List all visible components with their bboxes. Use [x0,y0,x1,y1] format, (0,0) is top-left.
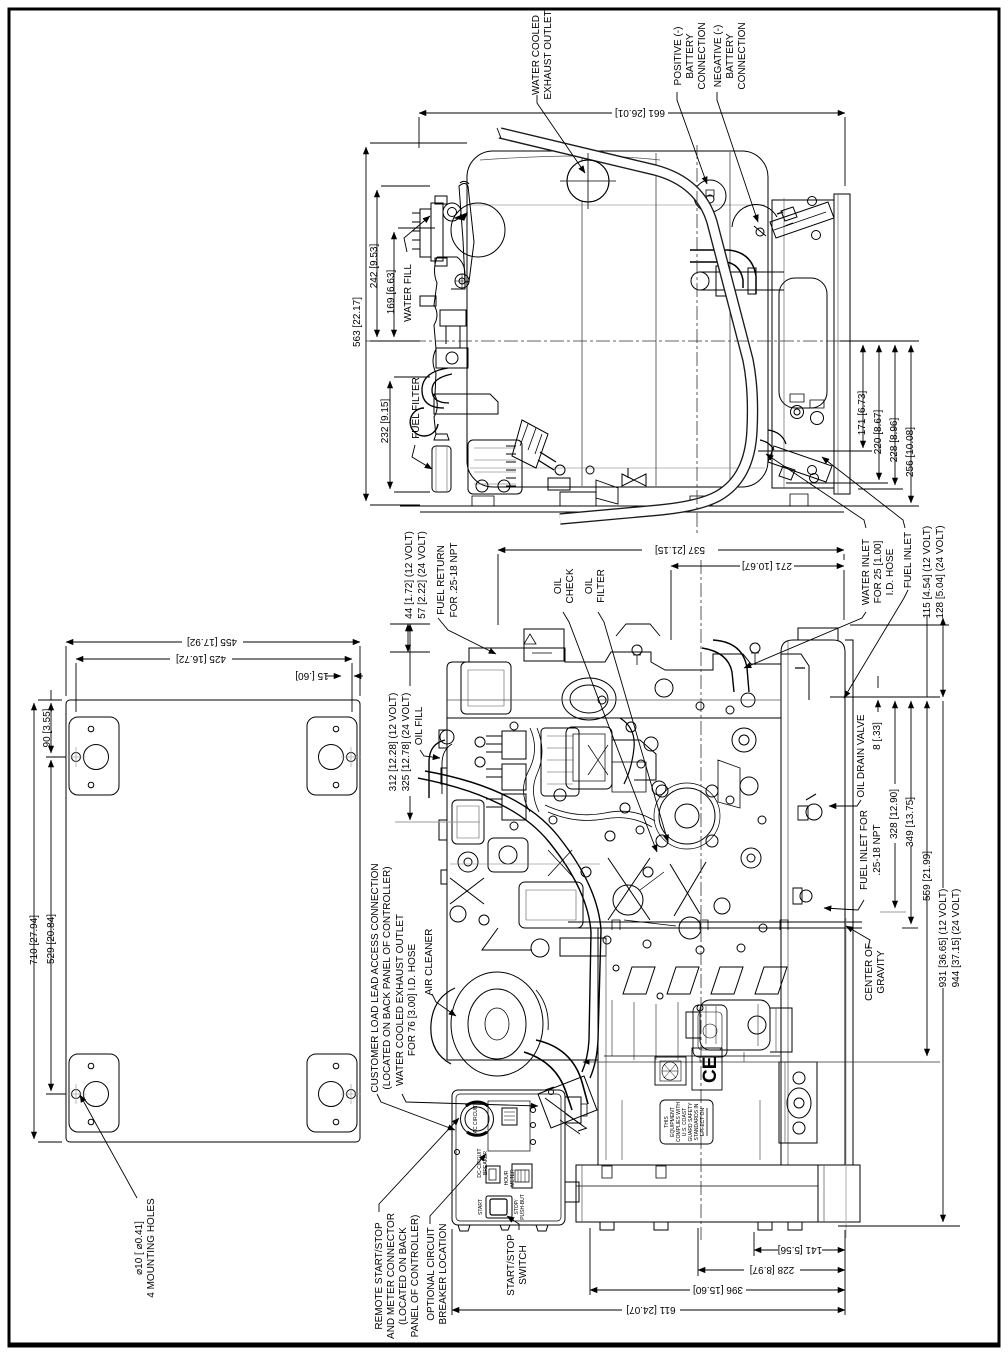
oil filter inner [675,804,699,828]
hour meter [512,1164,532,1188]
drain petcock [622,474,646,486]
leader fuel return [438,618,496,654]
connector decal [502,1108,517,1125]
tank seam lines [470,205,765,468]
dim 312 line [409,656,411,820]
thermostat circle [562,678,616,720]
svg-text:POSITIVE (-): POSITIVE (-) [673,27,684,86]
leader 4 mounting holes [80,1095,137,1198]
feet [600,1222,802,1230]
dim 15 line [332,675,341,677]
svg-text:141 [5.56]: 141 [5.56] [778,1244,823,1255]
svg-text:349 [13.75]: 349 [13.75] [905,797,916,847]
engine top profile [447,648,809,700]
svg-text:455 [17.92]: 455 [17.92] [187,636,237,647]
leader water inlet to top view [766,454,866,528]
engine bed line bottom [400,506,858,512]
top small bolts [632,645,642,655]
dim 328 line [894,701,896,908]
svg-text:CUSTOMER LOAD LEAD ACCESS CONN: CUSTOMER LOAD LEAD ACCESS CONNECTION [370,863,381,1092]
svg-text:METER: METER [510,1169,516,1187]
thermostat overflow hose [422,368,448,408]
svg-text:AIR CLEANER: AIR CLEANER [424,929,435,996]
svg-text:AND METER CONNECTOR: AND METER CONNECTOR [386,1213,397,1339]
leader center of gravity [846,926,870,948]
bottom ext lines [452,1228,845,1315]
leader water fill [404,216,430,252]
tank band lines [582,152,730,486]
svg-text:OIL: OIL [553,578,564,595]
svg-text:FOR .25-18 NPT: FOR .25-18 NPT [449,542,460,617]
mid pipes cluster [440,310,466,326]
mounting hole crosshair bottom-right [341,1084,361,1104]
leader oil filter [598,612,668,842]
bottom ear plate [768,446,832,482]
CE mark sticker [692,1048,722,1090]
right ext line mid [830,696,940,698]
extra engine circles [554,789,566,801]
dim 611 [452,1309,845,1311]
svg-text:537 [21.15]: 537 [21.15] [655,544,705,555]
injection pump block [468,440,522,494]
svg-text:171 [6.73]: 171 [6.73] [857,391,868,436]
dim 455 line [66,641,360,643]
left face bumps [439,730,447,884]
leader water inlet [744,612,866,668]
control panel box [452,1090,565,1225]
dim 425 ext lines [76,663,352,712]
svg-text:FUEL INLET FOR: FUEL INLET FOR [859,810,870,890]
dim 271 ext [671,570,844,640]
drip tray [576,1165,818,1222]
leader customer load [377,1094,455,1130]
dim 115/128 line [942,618,944,697]
dim 271 line [671,565,844,567]
dim 141 [754,1249,845,1251]
bottom border thick [9,1343,999,1348]
svg-text:242 [9.53]: 242 [9.53] [369,244,380,289]
dim 710 line [33,703,35,1139]
svg-text:CENTER OF: CENTER OF [864,943,875,1001]
bed bolts [612,920,788,930]
large hole top-right [319,745,344,770]
svg-text:228 [8.97]: 228 [8.97] [750,1264,795,1275]
small holes top-left bracket [88,726,94,732]
battery positive post [694,180,726,212]
dim 661 ext [419,117,845,186]
valve cover left [461,662,511,714]
svg-text:.25-18 NPT: .25-18 NPT [872,824,883,875]
svg-text:328 [12.90]: 328 [12.90] [889,789,900,839]
vent slots [623,967,655,994]
bed feet bolts top view [472,494,808,506]
svg-text:WATER INLET: WATER INLET [861,539,872,605]
panel tiny texts [473,1105,526,1220]
oil drain valve [806,804,822,820]
dim 563 ext [370,143,467,505]
crank centerline horizontal [583,1061,940,1063]
front hose big curve [425,771,601,1078]
dim 44 ext [390,624,430,652]
breather cap [655,679,673,697]
large hole bottom-right [319,1082,344,1107]
bracket top-left [69,717,119,795]
small holes top-right bracket [333,726,339,732]
large hole bottom-left [84,1082,109,1107]
svg-text:OPTIONAL CIRCUIT: OPTIONAL CIRCUIT [426,1227,437,1321]
leader air cleaner [432,994,456,1016]
piping mid [612,740,656,780]
svg-text:BREAKER LOCATION: BREAKER LOCATION [438,1224,449,1325]
svg-text:PANEL OF CONTROLLER): PANEL OF CONTROLLER) [410,1215,421,1338]
hose left end detail [497,128,501,138]
ribbed fins [506,446,516,486]
engine block edges [446,700,448,1060]
dim 559 line [926,701,928,1056]
svg-text:FUEL FILTER: FUEL FILTER [411,377,422,439]
svg-text:NEGATIVE (-): NEGATIVE (-) [713,25,724,88]
water pump pipe [700,272,784,290]
svg-text:944 [37.15] (24 VOLT): 944 [37.15] (24 VOLT) [951,889,962,988]
oil filter outer ring [659,788,715,844]
svg-text:EXHAUST OUTLET: EXHAUST OUTLET [543,10,554,99]
svg-text:90 [3.55]: 90 [3.55] [42,708,53,747]
frame diagonal webs [608,858,706,920]
leader positive battery [677,92,707,184]
lower skirt lines [622,1100,760,1160]
intake box [566,727,612,789]
dim 312 ext [395,821,480,823]
svg-text:GRAVITY: GRAVITY [876,950,887,993]
svg-text:CE: CE [700,1057,721,1083]
dim 931/944 line [942,701,944,1222]
svg-text:15 [.60]: 15 [.60] [295,670,329,681]
svg-text:EFFECT ON: EFFECT ON [700,1107,706,1136]
svg-text:CONNECTION: CONNECTION [697,22,708,89]
connector bump right top [565,1097,581,1123]
right dims ext at centerline [840,340,919,342]
bracket bottom-right [307,1054,357,1132]
dim 242 ext [370,186,430,341]
certification sticker ornate [655,1057,686,1085]
remote connector circle [461,1103,494,1136]
air cleaner disc [451,972,543,1076]
muffler elbow lower [536,1040,588,1104]
dim 256 line [910,345,912,503]
dim 396 [590,1289,845,1291]
screws [531,1108,536,1113]
centerline vertical top view [696,145,698,533]
svg-text:271 [10.67]: 271 [10.67] [742,560,792,571]
bracket bottom-left [69,1054,119,1132]
mounting hole crosshair top-right [341,747,361,767]
bracket plate mid [616,624,660,636]
right mounting rail [834,194,850,494]
svg-text:WATER COOLED EXHAUST OUTLET: WATER COOLED EXHAUST OUTLET [395,914,406,1086]
manifold shelf [434,394,498,414]
left engine details [452,800,484,844]
svg-text:SWITCH: SWITCH [518,1245,529,1284]
fuel lines mid [545,805,655,821]
svg-text:FOR 25 [1.00]: FOR 25 [1.00] [873,540,884,603]
svg-text:169 [6.63]: 169 [6.63] [386,270,397,315]
lever handle [459,184,474,283]
leader fuel inlet to top view [822,457,905,528]
battery negative stud [756,228,764,236]
ext line hole top-left [46,757,66,1094]
mid lower cluster [519,882,583,928]
water fill flange plate [420,209,431,257]
svg-text:256 [10.08]: 256 [10.08] [905,427,916,477]
svg-text:FOR 76 [3.00] I.D. HOSE: FOR 76 [3.00] I.D. HOSE [407,944,418,1057]
hose clamp marks [560,1114,586,1134]
svg-text:425 [16.72]: 425 [16.72] [176,653,226,664]
dim 169 ext [398,227,435,229]
svg-text:4 MOUNTING HOLES: 4 MOUNTING HOLES [146,1198,157,1298]
dim 349 line [910,701,912,924]
warning sticker [524,629,564,661]
engine silhouette left [433,257,437,435]
dim 563 line [365,147,367,501]
centerline horizontal top view [366,340,919,342]
svg-text:BATTERY: BATTERY [685,33,696,79]
small holes bottom-left bracket [88,1063,94,1069]
svg-text:661 [26.01]: 661 [26.01] [615,107,665,118]
dim 220 line [878,345,880,480]
engine bed rails [568,922,862,928]
svg-text:396 [15.60]: 396 [15.60] [693,1284,743,1295]
svg-text:WATER COOLED: WATER COOLED [531,15,542,95]
top ear bolt [781,207,797,221]
leader fuel inlet for npt [824,900,864,910]
fittings bottom fuel/water [791,406,804,419]
svg-text:START: START [478,1199,484,1215]
svg-text:BATTERY: BATTERY [725,33,736,79]
bracket top-right [307,717,357,795]
leader oil check [563,612,657,852]
exhaust outlet circle [567,160,609,202]
angled starter cylinder [512,420,548,468]
svg-text:PUSH-BUT: PUSH-BUT [520,1194,526,1220]
svg-text:931 [36.65] (12 VOLT): 931 [36.65] (12 VOLT) [938,889,949,988]
top ear plate [770,202,834,238]
water pump lower left [488,838,528,872]
heat exchanger tank body [467,151,768,487]
dim 455 ext lines [66,646,360,696]
generator end bell circle [732,205,777,227]
right engine circles [732,728,756,752]
exhaust riser elbow [690,250,756,294]
CG vertical line [845,918,847,1238]
leader optional circuit breaker [430,1154,486,1224]
dim 169 line [393,232,395,337]
leader remote start stop [379,1118,459,1212]
lifting eye [410,408,438,436]
panel feet [458,1225,548,1231]
dim 242 line [376,190,378,337]
uscg label [660,1100,713,1144]
svg-text:OIL FILL: OIL FILL [414,706,425,745]
svg-text:I.D. HOSE: I.D. HOSE [885,548,896,595]
pointer arrow small [455,213,467,220]
dim 8 arrows [877,676,879,712]
dim 537 ext [498,554,844,625]
svg-text:529 [20.84]: 529 [20.84] [46,914,57,964]
leader oil fill [420,750,440,758]
large hole top-left [84,745,109,770]
fuel inlet fitting [800,890,812,902]
oil pan ribs [612,1000,744,1062]
exhaust flange [538,1076,597,1128]
svg-text:⌀10 [ ⌀0.41]: ⌀10 [ ⌀0.41] [134,1221,145,1275]
extra piping bottom cluster [560,492,596,506]
svg-text:115 [4.54] (12 VOLT): 115 [4.54] (12 VOLT) [922,526,933,618]
dim 232 ext [394,377,430,492]
dim 171 line [862,345,864,448]
bottom ear bolt [779,466,795,480]
svg-text:OIL DRAIN VALVE: OIL DRAIN VALVE [856,714,867,798]
dim 90 line [50,703,52,753]
fuel filter cylinder [432,446,451,492]
svg-text:OIL: OIL [584,578,595,595]
valve gear box [541,728,579,796]
svg-text:44 [1.72] (12 VOLT): 44 [1.72] (12 VOLT) [404,531,415,619]
dim 425 line [76,658,352,660]
svg-text:REMOTE START/STOP: REMOTE START/STOP [374,1222,385,1330]
generator body [772,200,834,488]
leader water cooled 76 [402,1094,538,1106]
connector bump right bottom [565,1182,579,1202]
leader fuel inlet top [844,590,908,698]
leader start stop switch [507,1216,519,1230]
mounting hole crosshair bottom-left [66,1084,86,1104]
dipstick loop [620,718,634,784]
heat shield plate [718,760,740,808]
leader water cooled exhaust outlet [537,95,585,173]
bolts row mid [603,936,611,944]
right ext line upper [850,624,949,626]
dc breaker [486,1166,500,1183]
base pan rectangle [66,700,360,1142]
tank end circle [451,203,505,257]
fuel pump right [770,1008,792,1052]
svg-text:710 [27.94]: 710 [27.94] [29,915,40,965]
svg-text:CHECK: CHECK [565,568,576,603]
svg-text:CONNECTION: CONNECTION [737,22,748,89]
svg-text:WATER FILL: WATER FILL [403,264,414,322]
injector cluster 2 [502,764,526,790]
svg-text:FUEL RETURN: FUEL RETURN [436,545,447,615]
lower gen housing [597,928,599,1165]
svg-text:FUEL INLET: FUEL INLET [903,532,914,588]
engine mount bracket right [779,1062,817,1143]
generator top step [798,628,838,640]
dim 44 line [407,624,409,652]
svg-text:(LOCATED ON BACK PANEL OF CONT: (LOCATED ON BACK PANEL OF CONTROLLER) [382,866,393,1089]
starter motor [700,1000,770,1050]
dim 537 line [498,549,844,551]
stud bolt [455,274,469,288]
svg-text:228 [8.96]: 228 [8.96] [889,418,900,463]
svg-text:57 [2.22] (24 VOLT): 57 [2.22] (24 VOLT) [417,531,428,619]
svg-text:(LOCATED ON BACK: (LOCATED ON BACK [398,1227,409,1325]
mounting hole crosshair top-left [66,747,86,767]
filler cap [443,203,461,221]
oil fill neck [429,740,445,798]
start rocker switch [486,1196,512,1218]
centerline vertical engine [700,560,702,1240]
plate above CE [693,1005,727,1057]
dim 710 ext lines [38,700,62,1142]
fill neck stub [420,296,436,306]
dim 115 second line [926,616,928,697]
small holes bottom-right bracket [333,1063,339,1069]
sub panel rect [488,1101,530,1151]
dim 228 [698,1269,845,1271]
svg-text:128 [5.04] (24 VOLT): 128 [5.04] (24 VOLT) [935,525,946,618]
injector cluster 1 [502,731,526,759]
leader negative battery [717,92,758,222]
svg-text:312 [12.28] (12 VOLT): 312 [12.28] (12 VOLT) [388,693,399,792]
svg-text:563 [22.17]: 563 [22.17] [352,297,363,347]
generator window [779,278,827,408]
dim 661 line [419,112,845,114]
lower pipes right [760,430,786,450]
svg-text:611 [24.07]: 611 [24.07] [626,1304,676,1315]
svg-text:325 [12.78] (24 VOLT): 325 [12.78] (24 VOLT) [401,693,412,792]
dim 228 line [894,345,896,485]
water inlet elbow top right [713,640,749,692]
small fittings right of engine [538,452,556,470]
svg-text:START/STOP: START/STOP [506,1234,517,1296]
dim 232 line [389,381,391,489]
svg-text:FILTER: FILTER [596,569,607,603]
svg-text:8 [.33]: 8 [.33] [872,722,883,750]
block top line [447,717,781,719]
dim 529 line [50,760,52,1091]
generator housing right [781,640,845,1165]
svg-text:AC CIRCUIT: AC CIRCUIT [473,1105,479,1134]
svg-text:232 [9.15]: 232 [9.15] [380,399,391,444]
svg-text:559 [21.99]: 559 [21.99] [922,851,933,901]
injector cluster 3 [502,794,526,820]
fuel lines wiggle [523,728,534,812]
base bottom ext right [838,1225,960,1227]
leader oil drain valve [829,800,861,806]
svg-text:220 [8.67]: 220 [8.67] [873,410,884,455]
exhaust hose outer [500,133,753,519]
leader fuel filter [412,445,432,469]
